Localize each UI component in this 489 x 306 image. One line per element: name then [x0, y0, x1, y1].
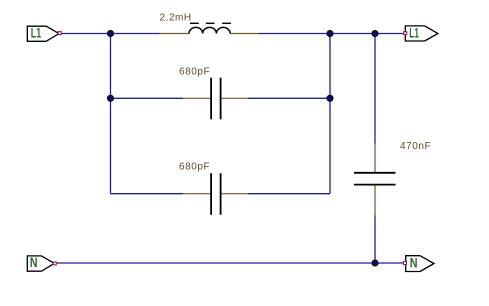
svg-text:680pF: 680pF: [179, 67, 210, 78]
capacitor C1 680pF: [179, 67, 248, 120]
node junction row1-left: [108, 95, 114, 101]
svg-text:N: N: [30, 254, 38, 270]
wire row1 right segment: [248, 97, 330, 99]
wire 470nF branch upper: [374, 34, 376, 144]
wire row1 left segment: [111, 97, 184, 99]
svg-text:470nF: 470nF: [400, 141, 431, 152]
wire row2 right segment: [248, 193, 330, 195]
wire right branch vertical: [329, 34, 331, 194]
node junction bottom: [372, 260, 378, 266]
terminal L1 right: [404, 25, 438, 41]
wire bottom rail: [56, 262, 404, 264]
wire 470nF branch lower: [374, 216, 376, 264]
svg-text:680pF: 680pF: [179, 162, 210, 173]
node junction top-left: [108, 31, 114, 37]
wire top rail right segment: [259, 33, 405, 35]
wire row2 left segment: [111, 193, 184, 195]
svg-text:L1: L1: [409, 25, 419, 41]
node junction row1-right: [327, 95, 333, 101]
node junction top-middle: [327, 31, 333, 37]
terminal N left: [27, 254, 56, 271]
inductor L1 2.2mH: [160, 13, 259, 34]
terminal L1 left: [27, 25, 61, 42]
wire top rail left segment: [60, 33, 160, 35]
svg-text:2.2mH: 2.2mH: [160, 13, 192, 24]
terminal N right: [403, 254, 434, 271]
svg-text:N: N: [410, 254, 418, 270]
capacitor C3 470nF: [354, 141, 431, 216]
capacitor C2 680pF: [179, 162, 248, 215]
svg-text:L1: L1: [31, 25, 42, 41]
wire left branch vertical: [110, 34, 112, 194]
node junction top-right: [372, 31, 378, 37]
